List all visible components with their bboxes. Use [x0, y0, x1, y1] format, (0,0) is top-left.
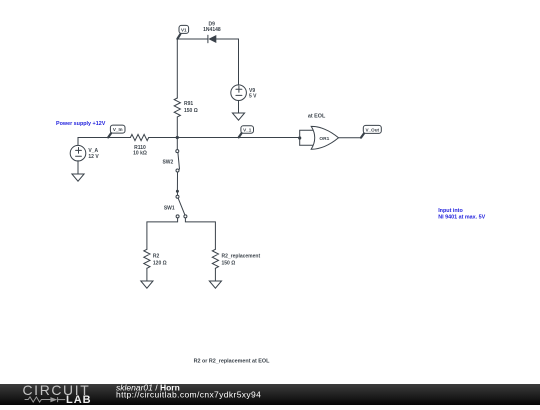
svg-text:R2 or R2_replacement at EOL: R2 or R2_replacement at EOL [194, 358, 271, 364]
svg-text:SW2: SW2 [162, 159, 173, 165]
svg-text:LAB: LAB [66, 394, 92, 405]
svg-text:150 Ω: 150 Ω [184, 108, 198, 114]
wire [339, 137, 362, 139]
voltage source V_A [70, 145, 99, 161]
svg-text:R91: R91 [184, 101, 193, 107]
svg-text:150 Ω: 150 Ω [222, 260, 236, 266]
svg-text:SW1: SW1 [164, 205, 175, 211]
wire [147, 218, 178, 249]
ground [72, 174, 84, 181]
node V_Out [361, 125, 381, 137]
svg-text:R2_replacement: R2_replacement [222, 253, 261, 259]
svg-text:NI 9401 at max. 5V: NI 9401 at max. 5V [438, 215, 485, 221]
ground [141, 281, 153, 288]
wire [78, 138, 130, 146]
node V_1 [239, 126, 254, 138]
wire OR gate input stubs [300, 130, 315, 145]
wire [149, 137, 300, 139]
svg-text:12 V: 12 V [88, 154, 99, 160]
wire [216, 39, 238, 85]
svg-text:OR1: OR1 [319, 136, 329, 142]
CircuitLab logo wordmark [23, 382, 92, 406]
CircuitLab logo resistor-diode squiggle [25, 397, 66, 402]
resistor R2 [144, 249, 167, 281]
wire [238, 100, 240, 113]
ground [209, 281, 221, 288]
switch SW2 [162, 138, 179, 192]
or-gate OR1 [311, 126, 338, 149]
svg-text:V_In: V_In [113, 127, 123, 132]
svg-text:R2: R2 [153, 253, 160, 259]
svg-text:Power supply +12V: Power supply +12V [56, 121, 106, 127]
voltage source V9 [231, 85, 257, 101]
switch SW1 [164, 191, 187, 218]
svg-text:at EOL: at EOL [308, 113, 326, 119]
svg-text:Input into: Input into [438, 208, 463, 214]
wire [77, 161, 79, 174]
svg-text:120 Ω: 120 Ω [153, 260, 167, 266]
resistor R91 [174, 39, 198, 138]
node junction [176, 190, 179, 193]
node V_In [108, 125, 125, 137]
svg-text:V_Out: V_Out [366, 128, 380, 133]
node V1 [177, 25, 188, 38]
wire [185, 218, 215, 249]
resistor R110 [130, 134, 148, 156]
svg-text:10 kΩ: 10 kΩ [133, 151, 147, 157]
wire [177, 38, 208, 40]
ground [232, 113, 244, 120]
svg-text:V1: V1 [181, 28, 187, 33]
svg-text:5 V: 5 V [249, 94, 257, 100]
resistor R2_replacement [212, 249, 260, 281]
svg-text:1N4148: 1N4148 [203, 27, 221, 33]
svg-text:V_1: V_1 [243, 127, 252, 132]
node junction [298, 136, 301, 139]
svg-text:http://circuitlab.com/cnx7ydkr: http://circuitlab.com/cnx7ydkr5xy94 [116, 390, 261, 400]
node junction [176, 136, 179, 139]
diode D9 [203, 22, 221, 43]
